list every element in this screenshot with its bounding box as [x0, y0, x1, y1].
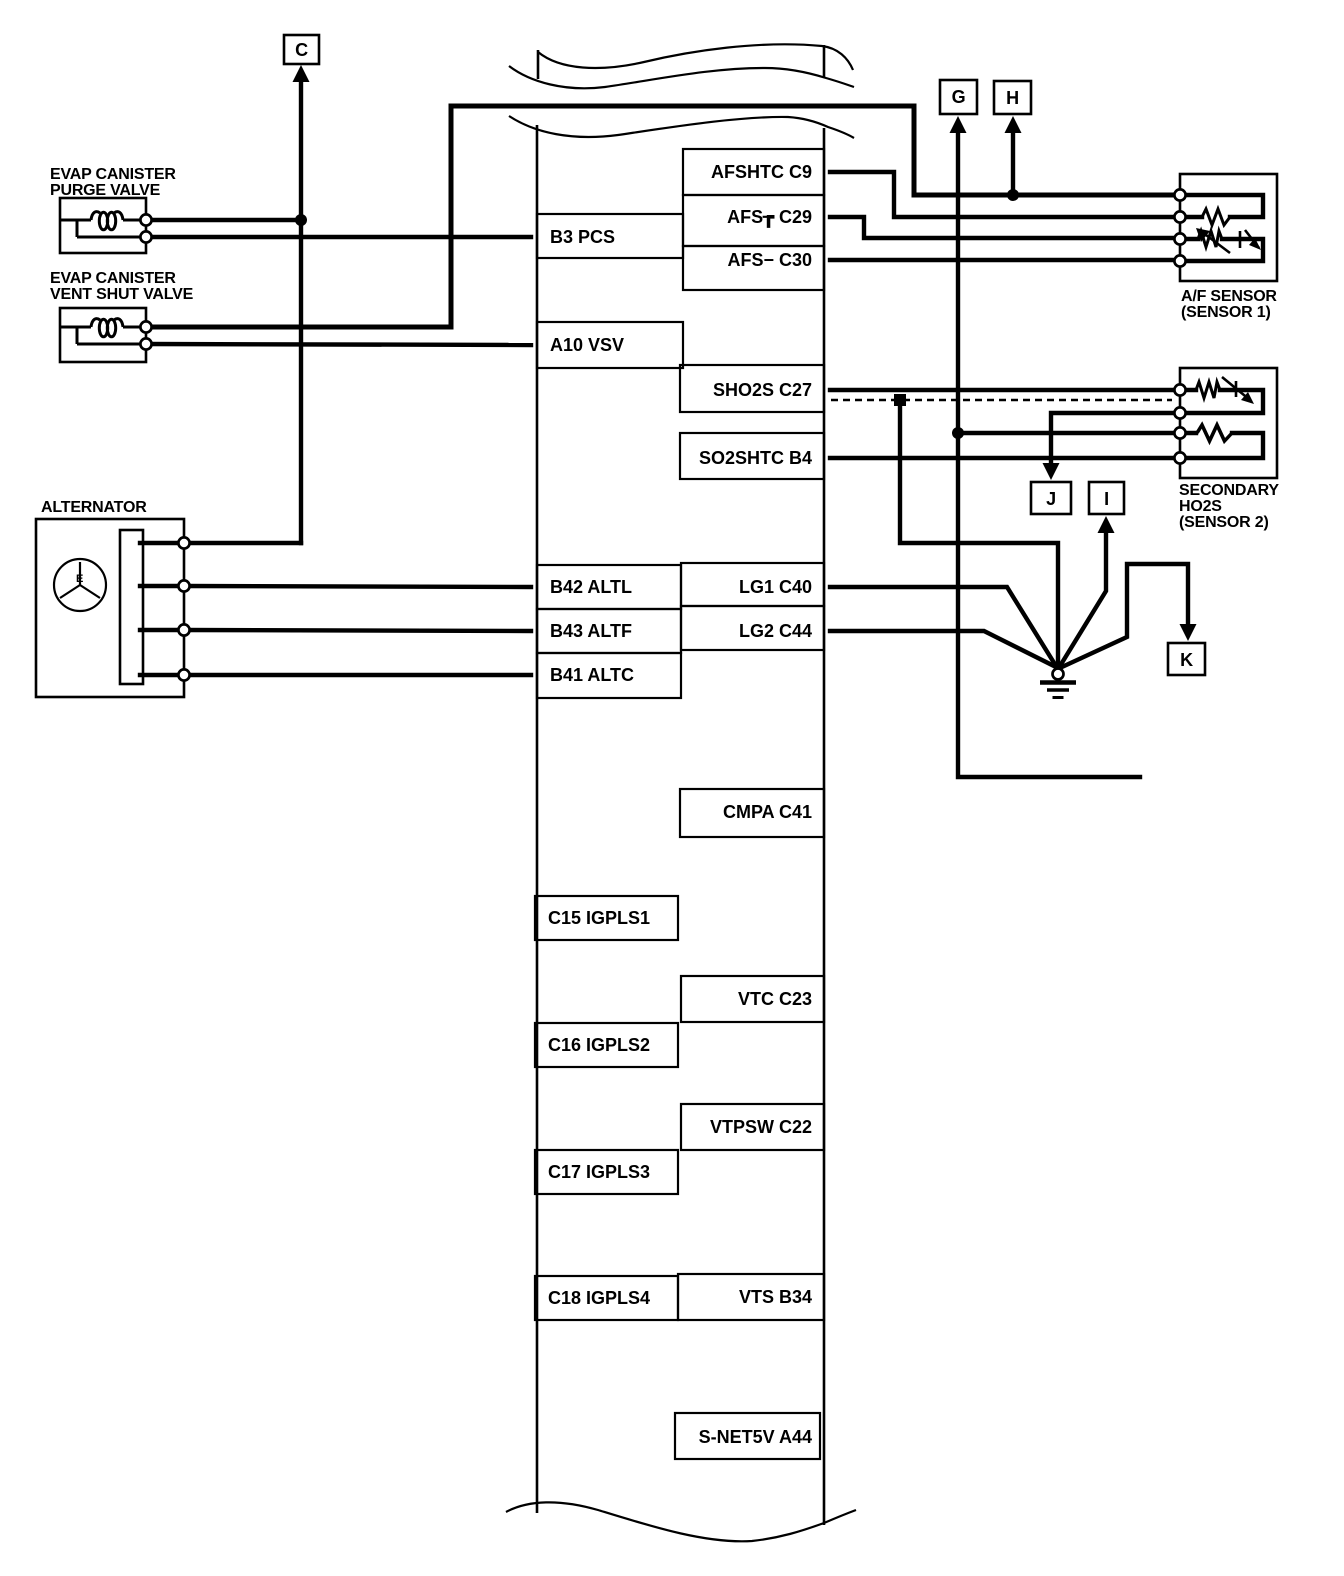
connector label box C17 IGPLS3	[535, 1150, 678, 1194]
pin secondary HO2S 1	[1174, 384, 1185, 395]
svg-text:I: I	[1104, 489, 1109, 509]
svg-text:B43 ALTF: B43 ALTF	[550, 621, 632, 641]
connector box G	[940, 80, 977, 114]
connector label box S-NET5V A44	[675, 1413, 820, 1459]
wire A10 VSV to EVAP canister vent shut valve pin 2	[146, 344, 531, 345]
svg-text:VTS B34: VTS B34	[739, 1287, 812, 1307]
svg-text:C17 IGPLS3: C17 IGPLS3	[548, 1162, 650, 1182]
svg-text:AFSHTC C9: AFSHTC C9	[711, 162, 812, 182]
svg-text:C15 IGPLS1: C15 IGPLS1	[548, 908, 650, 928]
connector label box CMPA C41	[680, 789, 824, 837]
pin EVAP purge valve 2	[140, 231, 151, 242]
ECM/PCM torn fragment top curve	[538, 44, 853, 70]
pin A/F sensor 4	[1174, 255, 1185, 266]
pin EVAP purge valve 1	[140, 214, 151, 225]
junction dot purge valve / C line	[295, 214, 307, 226]
wire SHO2S C27 to secondary HO2S pin 1	[830, 388, 1176, 392]
svg-text:VTC C23: VTC C23	[738, 989, 812, 1009]
svg-text:K: K	[1180, 650, 1193, 670]
connector label box C16 IGPLS2	[535, 1023, 678, 1067]
junction dot G line / heater power	[952, 427, 964, 439]
svg-text:VTPSW C22: VTPSW C22	[710, 1117, 812, 1137]
svg-text:ALTERNATOR: ALTERNATOR	[41, 499, 147, 516]
wire AFS+ C29 to A/F sensor pin 3	[830, 217, 1176, 238]
connector box I	[1089, 482, 1124, 514]
connector label box C18 IGPLS4	[535, 1276, 678, 1320]
svg-text:CMPA C41: CMPA C41	[723, 802, 812, 822]
pin A/F sensor 1	[1174, 189, 1185, 200]
wire alternator pin 4 to B41 ALTC	[184, 673, 531, 677]
wire ground to node I	[1060, 528, 1106, 666]
pin alternator 3	[178, 624, 189, 635]
arrowhead into G	[950, 116, 967, 133]
ECM/PCM main box left edge	[536, 125, 539, 1513]
ground sensor/logic ground	[1040, 669, 1076, 698]
wire B3 PCS to EVAP canister purge valve pin 2	[146, 235, 531, 239]
connector label box LG2 C44	[681, 606, 824, 650]
svg-text:SECONDARY: SECONDARY	[1179, 482, 1279, 499]
ECM/PCM torn fragment left edge	[537, 50, 540, 79]
ECM/PCM torn fragment bottom curve	[509, 66, 854, 88]
svg-text:B3 PCS: B3 PCS	[550, 227, 615, 247]
junction square dot on shield	[894, 394, 906, 406]
junction dot bus / H arrow	[1007, 189, 1019, 201]
svg-text:S-NET5V A44: S-NET5V A44	[699, 1427, 812, 1447]
ECM/PCM main box right edge	[823, 128, 826, 1525]
svg-text:AFS┲ C29: AFS┲ C29	[727, 207, 812, 228]
node C vertical wire	[299, 78, 303, 543]
wire alternator pin 2 to B42 ALTL	[184, 586, 531, 587]
arrowhead into K	[1180, 624, 1197, 641]
pin EVAP vent shut valve 2	[140, 338, 151, 349]
connector label box AFS+ C29	[683, 195, 824, 246]
alternator	[36, 519, 184, 697]
ECM/PCM bottom torn curve	[506, 1502, 856, 1541]
A/F sensor (sensor 1)	[1180, 174, 1277, 281]
arrowhead into J	[1043, 463, 1060, 480]
connector label box B42 ALTL	[537, 565, 681, 609]
svg-text:(SENSOR 2): (SENSOR 2)	[1179, 514, 1269, 531]
svg-text:LG2 C44: LG2 C44	[739, 621, 812, 641]
svg-text:J: J	[1046, 489, 1056, 509]
shield dashed wire	[831, 399, 1172, 402]
wire AFSHTC C9 to A/F sensor pin 2	[830, 172, 1176, 217]
ECM/PCM main box top torn curve	[509, 116, 854, 138]
wire ground to node K	[1062, 564, 1188, 667]
svg-text:EVAP CANISTER: EVAP CANISTER	[50, 166, 176, 183]
node H vertical wire	[1011, 131, 1015, 195]
pin alternator 2	[178, 580, 189, 591]
connector label box SO2SHTC B4	[680, 433, 824, 479]
svg-text:C16 IGPLS2: C16 IGPLS2	[548, 1035, 650, 1055]
pin alternator 4	[178, 669, 189, 680]
secondary HO2S (sensor 2)	[1180, 368, 1277, 478]
svg-text:G: G	[952, 87, 966, 107]
pin secondary HO2S 4	[1174, 452, 1185, 463]
wire alternator pin 3 to B43 ALTF	[184, 630, 531, 631]
svg-text:SO2SHTC B4: SO2SHTC B4	[699, 448, 812, 468]
svg-text:PURGE VALVE: PURGE VALVE	[50, 182, 161, 199]
connector label box A10 VSV	[537, 322, 683, 368]
pin alternator 1	[178, 537, 189, 548]
wire LG1 C40 to ground	[830, 587, 1056, 666]
wire EVAP canister purge valve pin 1 to node C line	[146, 218, 301, 222]
wire heater power junction to secondary HO2S pin 3	[958, 431, 1176, 435]
arrowhead into I	[1098, 516, 1115, 533]
svg-text:A10 VSV: A10 VSV	[550, 335, 624, 355]
svg-text:SHO2S C27: SHO2S C27	[713, 380, 812, 400]
svg-text:C18 IGPLS4: C18 IGPLS4	[548, 1288, 650, 1308]
pin A/F sensor 2	[1174, 211, 1185, 222]
connector label box B41 ALTC	[537, 653, 681, 698]
connector box K	[1168, 643, 1205, 675]
svg-text:C: C	[295, 40, 308, 60]
svg-text:AFS− C30: AFS− C30	[727, 250, 812, 270]
connector label box VTS B34	[678, 1274, 824, 1320]
connector label box C15 IGPLS1	[535, 896, 678, 940]
node G vertical wire from CMP sensor A power	[958, 131, 1140, 777]
wire alternator pin 1 to node C	[184, 541, 301, 545]
connector label box AFS- C30	[683, 246, 824, 290]
connector label box VTC C23	[681, 976, 824, 1022]
connector label box LG1 C40	[681, 563, 824, 606]
connector label box B3 PCS	[537, 214, 683, 258]
arrowhead into C	[293, 65, 310, 82]
pin secondary HO2S 2	[1174, 407, 1185, 418]
pin secondary HO2S 3	[1174, 427, 1185, 438]
ECM/PCM torn fragment right edge	[823, 45, 826, 77]
arrowhead into H	[1005, 116, 1022, 133]
wire AFS- C30 to A/F sensor pin 4	[830, 258, 1176, 262]
connector box J	[1031, 482, 1071, 514]
wire LG2 C44 to ground	[830, 631, 1054, 666]
svg-text:LG1 C40: LG1 C40	[739, 577, 812, 597]
EVAP canister vent shut valve	[60, 308, 146, 362]
connector box H	[994, 81, 1031, 114]
wire / power bus: vent shut valve pin 1 up over ECM to A/F sensor pin 1	[146, 106, 1176, 327]
svg-text:E: E	[76, 573, 83, 585]
svg-text:A/F SENSOR: A/F SENSOR	[1181, 288, 1277, 305]
wire SO2SHTC B4 to secondary HO2S pin 4	[830, 456, 1176, 460]
svg-text:VENT SHUT VALVE: VENT SHUT VALVE	[50, 286, 194, 303]
svg-text:B41 ALTC: B41 ALTC	[550, 665, 634, 685]
connector box C	[284, 35, 319, 64]
svg-text:(SENSOR 1): (SENSOR 1)	[1181, 304, 1271, 321]
svg-text:B42 ALTL: B42 ALTL	[550, 577, 632, 597]
EVAP canister purge valve	[60, 198, 146, 253]
pin A/F sensor 3	[1174, 233, 1185, 244]
connector label box VTPSW C22	[681, 1104, 824, 1150]
shield drain wire to ground	[900, 400, 1058, 664]
connector label box SHO2S C27	[680, 365, 824, 412]
connector label box AFSHTC C9	[683, 149, 824, 195]
svg-text:H: H	[1006, 88, 1019, 108]
wire secondary HO2S pin 2 to node J	[1051, 413, 1176, 462]
connector label box B43 ALTF	[537, 609, 681, 653]
svg-text:HO2S: HO2S	[1179, 498, 1222, 515]
pin EVAP vent shut valve 1	[140, 321, 151, 332]
svg-text:EVAP CANISTER: EVAP CANISTER	[50, 270, 176, 287]
